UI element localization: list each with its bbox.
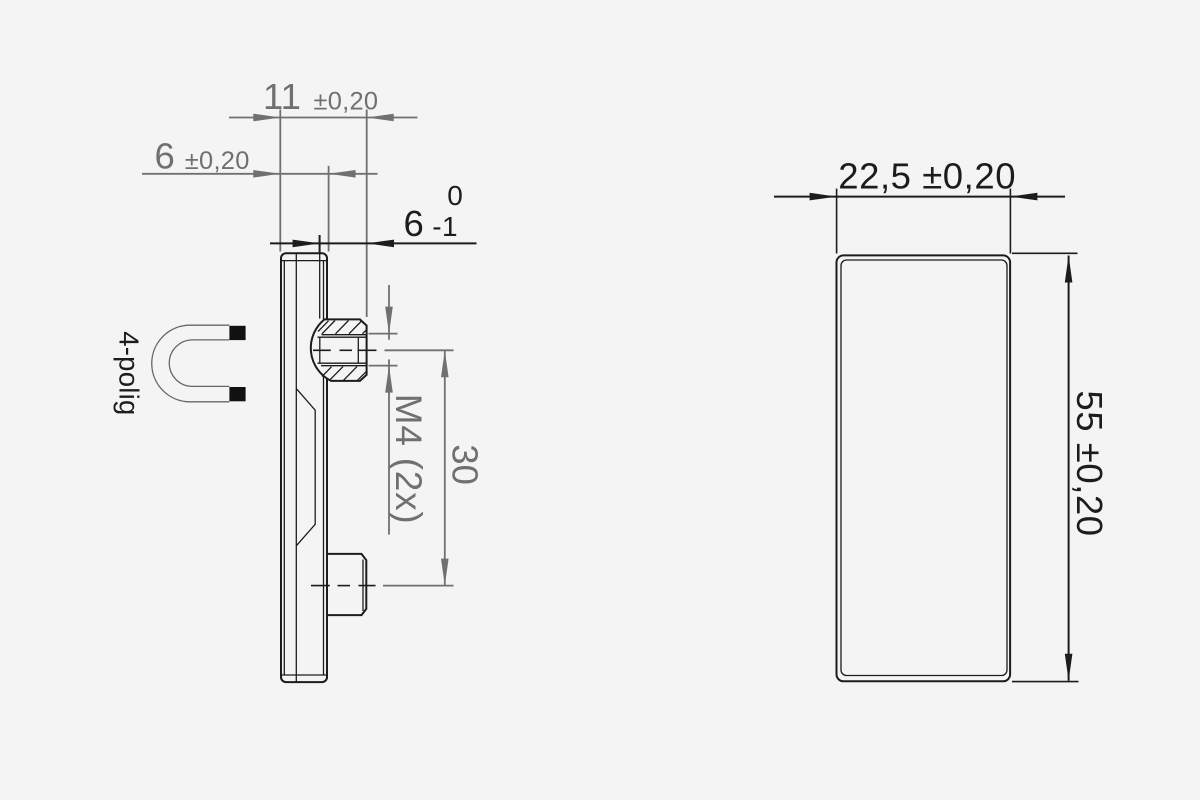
stud outline [327,554,366,615]
stud centerline [311,585,376,587]
arrow 55 up [1065,256,1073,283]
svg-text:6: 6 [155,135,175,176]
plate inner top line [282,260,326,262]
plate middle vertical line [295,253,297,682]
nut upper band line b [318,336,367,338]
plate right top segment line [319,253,321,318]
nut hatch top band [318,321,367,334]
nut hatch bottom band [322,367,367,381]
arrow 6-1 left [293,240,320,248]
arrow M4 down [385,307,393,334]
arrow dim6 left [253,170,280,178]
svg-text:4-polig: 4-polig [113,331,144,415]
arrow dim11 right [367,114,394,122]
stud inner right line [362,560,364,612]
dim 6 ext line right [328,166,330,252]
30 ext line bottom (centerline extension) [383,585,454,587]
plate outer outline [281,253,327,682]
M4 dim line upper seg [388,285,390,340]
nut lower band line a [318,362,367,364]
svg-text:0: 0 [447,180,463,211]
arrow 55 down [1065,654,1073,681]
dim 6 line [142,173,378,175]
nut upper band line a [322,334,367,336]
dim 11 ext line right [366,110,368,318]
connector pad top [229,326,245,340]
M4 ext line lower [369,365,398,367]
svg-text:11: 11 [263,76,301,117]
arrow 22,5 left [810,193,837,201]
pocket outline [296,389,315,546]
connector pad bottom [229,387,245,401]
dim 55 line [1068,256,1070,681]
svg-text:±0,20: ±0,20 [314,87,379,115]
svg-text:55 ±0,20: 55 ±0,20 [1069,390,1110,536]
M4 dim line lower seg [388,359,390,534]
dim 11 ext line left [279,110,281,252]
dim 22,5 ext left [836,189,838,254]
dim 11 line [229,117,418,119]
connector U inner [169,340,229,387]
nut lower band line b [321,365,367,367]
nut hex corner line [319,337,321,363]
30 dim line [444,350,446,585]
arrow dim11 left [253,114,280,122]
svg-text:-1: -1 [432,211,458,242]
arrow 30 down [441,559,449,586]
M4 ext line upper [369,333,398,335]
dim 22,5 ext right [1009,189,1011,254]
dim 6 -1 ext line [319,235,321,254]
nut thread relief line [357,337,359,363]
plate inner bottom line [282,674,326,676]
svg-text:M4 (2x): M4 (2x) [388,394,429,525]
dim 22,5 line [774,196,1065,198]
arrow 22,5 right [1010,193,1037,201]
arrow dim6 right [329,170,356,178]
arrow 6-1 right [367,240,394,248]
arrow M4 up [385,366,393,393]
nut outline (filled bg) [311,319,367,381]
plate inner left line [283,261,285,675]
dim 55 ext bottom [1012,681,1079,683]
svg-text:22,5 ±0,20: 22,5 ±0,20 [838,156,1016,197]
dim 55 ext top [1012,252,1078,254]
plate inner right line [323,261,325,675]
arrow 30 up [441,350,449,377]
dim 6 -1 line [270,242,477,244]
30 ext line top (centerline extension) [385,349,454,351]
svg-text:30: 30 [445,444,486,485]
svg-text:6: 6 [404,203,424,244]
front outer rounded rect [837,255,1011,681]
front inner rounded rect [841,260,1007,676]
nut centerline [313,349,377,351]
connector U outer [152,325,230,402]
svg-text:±0,20: ±0,20 [185,147,250,175]
